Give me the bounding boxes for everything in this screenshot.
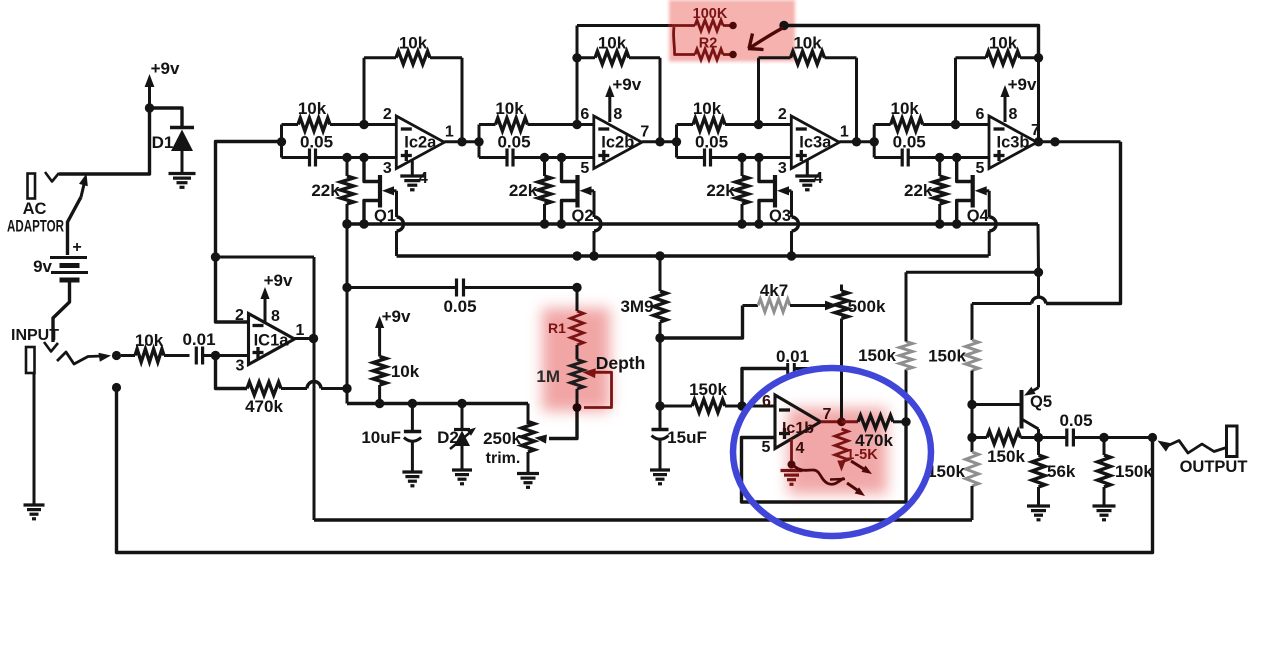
svg-text:8: 8 <box>613 106 622 123</box>
svg-text:150k: 150k <box>987 447 1025 466</box>
node bias 10uF <box>408 399 417 408</box>
node Q2 drain Ic2b <box>557 153 566 162</box>
svg-text:22k: 22k <box>311 181 340 200</box>
svg-text:4: 4 <box>814 170 823 187</box>
svg-text:+9v: +9v <box>151 59 180 78</box>
wire 3M9 node down <box>659 338 662 406</box>
bus B jfet gates <box>397 254 989 257</box>
resistor 22k Ic3a <box>706 158 748 225</box>
wire R1 mid <box>576 345 579 360</box>
transistor Q2 <box>562 158 595 226</box>
svg-text:1M: 1M <box>536 367 560 386</box>
ground below D1 <box>169 174 196 188</box>
node 22k top Ic3b <box>935 153 944 162</box>
node output 150k <box>1099 433 1108 442</box>
node sweep join <box>1034 268 1043 277</box>
wire R2 line left <box>577 24 672 27</box>
resistor 10k bias <box>373 357 420 404</box>
pin 6 label Ic3b <box>976 106 985 123</box>
wire IC1a output pin1 <box>295 337 316 340</box>
resistor 22k Ic2b <box>509 158 551 225</box>
resistor 4k7 (gray) <box>743 281 817 312</box>
resistor 150k lfo <box>660 380 742 413</box>
svg-text:D2: D2 <box>437 428 459 447</box>
wire lfo to sweep line <box>906 271 1039 274</box>
svg-text:Ic2a: Ic2a <box>404 134 437 152</box>
svg-text:10k: 10k <box>495 99 524 118</box>
svg-text:9v: 9v <box>33 257 52 276</box>
svg-text:10k: 10k <box>989 34 1018 53</box>
node Q4 drain Ic3b <box>952 153 961 162</box>
svg-text:+9v: +9v <box>382 307 411 326</box>
pin 5 label Ic3b <box>976 160 985 177</box>
ground Ic3a pin4 <box>795 159 819 190</box>
svg-text:5: 5 <box>976 160 985 177</box>
node stage4 fb <box>1034 53 1043 62</box>
capacitor 0.05 Ic2a <box>282 133 397 167</box>
wire bus A down to 0.05 <box>346 224 349 288</box>
node IC1a pin3 <box>211 351 220 360</box>
resistor 10k feedback Ic3a <box>759 34 857 142</box>
svg-text:4: 4 <box>419 170 428 187</box>
wire output Ic2b <box>642 140 677 143</box>
bias bus wire <box>347 402 528 405</box>
svg-text:3: 3 <box>778 160 787 177</box>
hand wire pin4 to LDR (red) <box>794 466 845 484</box>
node output jack <box>1148 433 1157 442</box>
wire output Ic3b <box>1037 140 1121 143</box>
resistor 1-5K LDR (red) <box>835 429 878 472</box>
node feedback out Ic2b <box>655 137 664 146</box>
node 0.05 lfo tap <box>342 283 351 292</box>
capacitor 15uF <box>652 406 707 470</box>
resistor 150k dry (gray) <box>927 438 978 521</box>
ground below D2 <box>452 470 472 484</box>
op-amp Ic2b <box>594 116 642 169</box>
svg-text:6: 6 <box>580 106 589 123</box>
wire pin6 <box>742 405 775 408</box>
resistor 10k feedback Ic2a <box>364 34 462 142</box>
pin 7 label Ic1b <box>823 406 832 423</box>
svg-text:ADAPTOR: ADAPTOR <box>7 218 64 236</box>
resistor 22k Ic3b <box>904 158 946 225</box>
resistor 10k input Ic2a <box>282 99 397 131</box>
resistor 56k <box>1032 438 1076 506</box>
resistor 10k input <box>121 331 190 362</box>
capacitor 0.05 Ic3b <box>874 133 989 167</box>
node R2 line right end <box>779 21 788 30</box>
op-amp Ic3a <box>791 116 839 169</box>
resistor 150k mix <box>972 431 1039 466</box>
pin 8 label Ic3b <box>1009 106 1018 123</box>
wire pin5 hysteresis <box>742 422 907 502</box>
ground below output 150k <box>1093 506 1116 520</box>
wire stage Ic3a input stub <box>675 125 678 158</box>
node 22k bus A <box>359 219 368 228</box>
svg-text:Ic3b: Ic3b <box>996 134 1029 152</box>
ground below 56k <box>1027 506 1050 520</box>
op-amp Ic1b <box>775 395 821 449</box>
resistor 10k input Ic3a <box>677 99 792 131</box>
node Ic1b output (red) <box>837 417 846 426</box>
svg-text:150k: 150k <box>689 380 727 399</box>
svg-text:3: 3 <box>236 358 245 375</box>
op-amp Ic2a <box>396 116 444 169</box>
svg-text:22k: 22k <box>706 181 735 200</box>
svg-text:22k: 22k <box>904 181 933 200</box>
svg-text:100K: 100K <box>693 6 728 22</box>
node 470k to bias chain <box>342 384 351 393</box>
svg-text:D1: D1 <box>152 133 174 152</box>
svg-text:0.01: 0.01 <box>776 347 809 366</box>
INPUT label <box>11 327 59 344</box>
node bus B Q3 <box>787 251 796 260</box>
svg-text:150k: 150k <box>1115 462 1153 481</box>
svg-text:56k: 56k <box>1047 462 1076 481</box>
wire Q1 gate to bus B <box>397 191 404 256</box>
ground below 250k <box>517 474 539 488</box>
resistor 3M9 <box>620 256 666 338</box>
wire input node to stage1 <box>216 142 282 258</box>
node feedback tap Ic3a <box>754 120 763 129</box>
node IC1a output <box>309 334 318 343</box>
output switch arm <box>1158 441 1227 454</box>
svg-text:10k: 10k <box>598 34 627 53</box>
pin 4 label Ic2a <box>419 170 428 187</box>
node 22k top Ic2b <box>540 153 549 162</box>
node Q2 source bus A <box>540 219 549 228</box>
node Q1 drain Ic2a <box>359 153 368 162</box>
resistor 470k lfo out <box>842 415 907 450</box>
input jack contact <box>44 342 58 352</box>
node stage Ic2a input <box>277 137 286 146</box>
svg-text:R1: R1 <box>548 320 566 336</box>
resistor 10k feedback Ic2b <box>577 34 660 142</box>
wire +9v node down to AC adaptor switch <box>59 108 150 174</box>
svg-text:2: 2 <box>383 106 392 123</box>
resistor 1M lower <box>536 360 583 390</box>
wire Q2 gate to bus B <box>594 191 601 256</box>
pin 1 label IC1a <box>296 322 305 339</box>
node 22k bus A <box>557 219 566 228</box>
svg-text:1: 1 <box>840 124 849 141</box>
svg-text:6: 6 <box>976 106 985 123</box>
resistor 470k feedback <box>216 356 348 417</box>
svg-text:10k: 10k <box>399 34 428 53</box>
AC adaptor jack contact <box>45 172 59 182</box>
wire +9v node to D1 <box>150 108 183 128</box>
wiper arrow 500k <box>816 301 838 311</box>
resistor R2 original (red) <box>674 27 731 60</box>
svg-text:8: 8 <box>1009 106 1018 123</box>
svg-text:10k: 10k <box>298 99 327 118</box>
resistor R1 1M depth (red) <box>548 288 583 346</box>
ground below 10uF <box>402 472 422 486</box>
pin 5 label Ic1b <box>762 439 771 456</box>
+9v arrow IC1a pin8 <box>260 271 293 322</box>
node lfo 150k <box>655 401 664 410</box>
wire sweep down hop <box>1037 272 1040 387</box>
+9v arrow bias <box>375 307 411 357</box>
svg-text:Ic1b: Ic1b <box>782 420 814 437</box>
pin 2 label IC1a <box>235 307 244 324</box>
svg-text:1: 1 <box>445 124 454 141</box>
svg-text:0.05: 0.05 <box>695 133 728 152</box>
pin 7 label Ic3b <box>1031 122 1040 139</box>
wire stage Ic2b input stub <box>478 125 481 158</box>
hand arrow light 2 (red) <box>847 483 865 496</box>
svg-text:10uF: 10uF <box>361 428 401 447</box>
node IC1a feedback corner <box>211 252 220 261</box>
wire 250k wiper <box>535 408 578 444</box>
svg-text:10k: 10k <box>793 34 822 53</box>
svg-text:trim.: trim. <box>486 450 521 467</box>
wire Q5 base <box>972 403 1022 406</box>
svg-text:150k: 150k <box>928 347 966 366</box>
svg-text:5: 5 <box>762 439 771 456</box>
wire Q3 gate to bus B <box>792 191 799 256</box>
ground below 15uF <box>650 470 670 484</box>
node bus B R1 <box>572 251 581 260</box>
pin 2 label Ic3a <box>778 106 787 123</box>
resistor 10k feedback Ic3b <box>956 34 1039 142</box>
node feedback tap Ic2a <box>359 120 368 129</box>
svg-text:Q5: Q5 <box>1030 393 1052 411</box>
node 3M9 on bus B <box>655 251 664 260</box>
wire IC1a output vertical dry <box>313 257 316 520</box>
resistor 22k Ic2a <box>311 158 353 225</box>
svg-text:10k: 10k <box>891 99 920 118</box>
resistor 150k wet (gray) <box>928 304 978 405</box>
capacitor 0.05 output <box>1039 411 1105 447</box>
pin 5 label Ic2b <box>580 160 589 177</box>
node 0.05 to R1 <box>572 283 581 292</box>
svg-text:4k7: 4k7 <box>760 281 788 300</box>
svg-text:OUTPUT: OUTPUT <box>1180 458 1248 476</box>
wire stage2 fb to R2 line <box>576 26 579 58</box>
capacitor 10uF <box>361 404 421 472</box>
wire output Ic2a <box>444 140 479 143</box>
svg-text:Ic2b: Ic2b <box>601 134 634 152</box>
node input switch throw A <box>112 351 121 360</box>
node 100K right (red) <box>729 22 737 30</box>
OUTPUT label <box>1180 458 1248 476</box>
wire 22k top to bias vertical <box>346 158 349 177</box>
svg-text:AC: AC <box>23 200 47 218</box>
node Q5 emitter <box>1034 433 1043 442</box>
svg-text:10k: 10k <box>693 99 722 118</box>
svg-text:150k: 150k <box>858 346 896 365</box>
node pin4 ground (red) <box>788 461 796 469</box>
capacitor 0.05 lfo <box>347 279 577 317</box>
transistor Q3 <box>759 158 792 226</box>
wire stage Ic2a input stub <box>280 125 283 158</box>
wire wet signal <box>972 142 1121 304</box>
op-amp Ic3b <box>989 116 1037 169</box>
ground below Ic1b pin4 (red) <box>781 471 803 485</box>
pin 3 label Ic2a <box>383 160 392 177</box>
node 470k right <box>901 417 910 426</box>
node stage Ic2b input <box>474 137 483 146</box>
svg-text:470k: 470k <box>245 397 283 416</box>
wire stage Ic3b input stub <box>873 125 876 158</box>
pin 1 label Ic3a <box>840 124 849 141</box>
wire battery to input jack tip <box>53 282 70 342</box>
capacitor 0.05 Ic3a <box>677 133 792 167</box>
node feedback out Ic3b <box>1034 137 1043 146</box>
pin 8 label Ic2b <box>613 106 622 123</box>
wire output Ic3a <box>839 140 874 143</box>
pin 6 label Ic2b <box>580 106 589 123</box>
wire IC1a pin2 to feedback <box>216 257 249 322</box>
node 22k bus A <box>952 219 961 228</box>
wire dry signal line <box>314 518 972 522</box>
svg-text:0.01: 0.01 <box>182 330 215 349</box>
battery plug arrow <box>68 174 88 256</box>
trimpot 250k <box>483 404 534 474</box>
transistor Q1 <box>364 158 397 226</box>
svg-text:1: 1 <box>296 322 305 339</box>
svg-text:10k: 10k <box>391 362 420 381</box>
diode D1 <box>152 128 194 173</box>
capacitor 0.01 lfo <box>742 347 842 406</box>
pin 3 label Ic3a <box>778 160 787 177</box>
wire bypass line <box>117 388 1153 553</box>
svg-text:7: 7 <box>640 124 649 141</box>
node feedback tap Ic2b <box>572 120 581 129</box>
wiper arrow depth (red) <box>583 368 612 407</box>
node Q1 source bus A <box>342 219 351 228</box>
svg-text:IC1a: IC1a <box>254 332 290 350</box>
input jack <box>26 347 35 373</box>
svg-text:0.05: 0.05 <box>443 297 476 316</box>
svg-text:Depth: Depth <box>596 353 646 373</box>
highlight patch around R2 100K mod <box>669 0 795 62</box>
wire R2 line right <box>784 26 1039 58</box>
node feedback out Ic2a <box>457 137 466 146</box>
wire down to bias bus <box>346 389 349 404</box>
svg-text:4: 4 <box>796 440 805 457</box>
pin 3 label IC1a <box>236 358 245 375</box>
input jack sleeve wire <box>33 374 36 505</box>
capacitor 0.01 input <box>182 330 248 365</box>
node feedback tap Ic3b <box>951 120 960 129</box>
blue highlight ellipse <box>733 368 931 536</box>
node Q5 base <box>967 400 976 409</box>
node at +9v rail <box>145 103 154 112</box>
pin 4 label Ic3a <box>814 170 823 187</box>
node R2 right (red) <box>729 51 737 59</box>
svg-text:22k: 22k <box>509 181 538 200</box>
pin 1 label Ic2a <box>445 124 454 141</box>
svg-text:+9v: +9v <box>264 271 293 290</box>
svg-text:+9v: +9v <box>612 75 641 94</box>
svg-text:10k: 10k <box>135 331 164 350</box>
diode D2 <box>437 404 476 470</box>
pin 8 label IC1a <box>271 308 280 325</box>
wire to output jack <box>1104 436 1153 439</box>
node wet out Ic3b <box>1050 137 1059 146</box>
node Q4 source bus A <box>935 219 944 228</box>
node 22k top Ic2a <box>342 153 351 162</box>
svg-text:0.05: 0.05 <box>893 133 926 152</box>
svg-text:8: 8 <box>271 308 280 325</box>
node bias bus A <box>342 219 351 228</box>
svg-text:0.05: 0.05 <box>300 133 333 152</box>
resistor 150k hysteresis (gray) <box>858 272 912 422</box>
node Q3 source bus A <box>737 219 746 228</box>
wire down to 470k node <box>346 288 349 389</box>
wire Ic1b pin4 (red) <box>790 439 793 465</box>
wire 3M9 to 4k7 <box>660 306 743 339</box>
+9v arrow Ic2b pin8 <box>605 75 642 122</box>
node feedback out Ic3a <box>852 137 861 146</box>
svg-text:470k: 470k <box>855 431 893 450</box>
wire Ic1b output (red) <box>821 420 842 423</box>
wire 1M to node <box>576 389 579 408</box>
svg-text:3: 3 <box>383 160 392 177</box>
AC adaptor jack <box>7 174 64 236</box>
resistor 100K mod (red) <box>668 6 730 31</box>
node 22k top Ic3a <box>737 153 746 162</box>
pin 4 label Ic1b <box>796 440 805 457</box>
svg-text:0.05: 0.05 <box>1059 411 1092 430</box>
transistor Q5 <box>1022 387 1053 438</box>
bus A jfet sources <box>344 222 1038 225</box>
svg-text:7: 7 <box>1031 122 1040 139</box>
pin 7 label Ic2b <box>640 124 649 141</box>
node depth wiper <box>573 403 582 412</box>
svg-text:250k: 250k <box>483 429 521 448</box>
svg-text:5: 5 <box>580 160 589 177</box>
Depth label <box>596 353 646 373</box>
ground below input jack <box>24 505 45 519</box>
ground Ic2a pin4 <box>400 159 424 190</box>
input switch arm <box>57 352 111 364</box>
svg-text:R2: R2 <box>699 36 718 52</box>
svg-text:2: 2 <box>778 106 787 123</box>
svg-text:500k: 500k <box>848 297 886 316</box>
wire Q4 gate to bus B <box>989 191 996 256</box>
highlight patch around R1 Depth pot <box>542 308 610 411</box>
transistor Q4 <box>957 158 990 226</box>
resistor 10k input Ic3b <box>874 99 989 131</box>
pin 2 label Ic2a <box>383 106 392 123</box>
node bypass switch throw B <box>112 383 121 392</box>
trimpot 500k <box>835 285 886 422</box>
wire feedback to output vertical <box>216 256 315 259</box>
node 3M9 bottom <box>655 333 664 342</box>
capacitor 0.05 Ic2b <box>479 133 594 167</box>
highlight patch around Ic1b LFO mod <box>788 408 887 494</box>
output jack <box>1227 426 1238 457</box>
node stage Ic3b input <box>870 137 879 146</box>
node Ic1b pin6 <box>737 401 746 410</box>
node Q3 drain Ic3a <box>754 153 763 162</box>
battery 9v <box>33 239 88 280</box>
node 22k bus A <box>754 219 763 228</box>
+9v supply arrow (main) <box>145 59 180 108</box>
node bias D2 <box>457 399 466 408</box>
wire bus A to sweep <box>1037 224 1041 272</box>
svg-text:+9v: +9v <box>1008 75 1037 94</box>
pin 6 label Ic1b <box>762 393 771 410</box>
node bias 10k <box>375 399 384 408</box>
resistor 10k input Ic2b <box>479 99 594 131</box>
svg-text:Ic3a: Ic3a <box>799 134 832 152</box>
wire Q5 collector to dry node <box>971 405 974 438</box>
hand arrow light 1 (red) <box>851 461 872 474</box>
